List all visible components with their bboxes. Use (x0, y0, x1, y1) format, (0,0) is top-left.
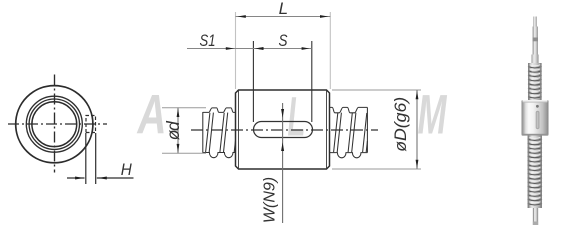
od dimension line (177, 108, 179, 154)
oD extension line bottom (332, 168, 421, 170)
H extension line left (85, 133, 87, 184)
svg-text:M: M (418, 83, 448, 146)
svg-text:L: L (279, 0, 288, 18)
nut outer circle (16, 86, 93, 163)
left thread bottom profile (203, 153, 236, 158)
L arrow right (320, 15, 329, 18)
H extension line right (95, 133, 97, 184)
screw bore circle (32, 102, 77, 147)
svg-text:W(N9): W(N9) (262, 177, 279, 223)
horizontal center line (8, 123, 107, 125)
photo nut body (522, 100, 549, 136)
keyway hidden rectangle (86, 116, 96, 133)
S extension line left (252, 41, 254, 122)
keyway slot stadium (254, 122, 313, 138)
oD arrow bottom (416, 160, 419, 169)
photo shaft top tip (533, 17, 537, 28)
photo bottom rod (533, 208, 538, 225)
photo shaft collar (531, 55, 538, 64)
right screw thread section (330, 107, 367, 157)
right thread bottom profile (330, 153, 367, 158)
S1 arrow pointing right at L extension (226, 47, 235, 50)
S extension line right (311, 41, 313, 122)
photo nut keyway slot (536, 111, 540, 129)
photo upper thread edge shading (528, 63, 530, 101)
od arrow bottom (177, 144, 180, 153)
L extension line left (235, 12, 237, 89)
nut left face inner line (238, 90, 240, 169)
photo lower threaded section (528, 136, 542, 209)
svg-text:S: S (279, 31, 289, 50)
od arrow top (177, 109, 180, 118)
S arrow left (256, 47, 264, 50)
W arrow up at slot bottom (281, 142, 284, 151)
svg-text:S1: S1 (200, 31, 216, 50)
svg-text:ød: ød (163, 120, 183, 140)
svg-text:H: H (121, 161, 132, 179)
right thread flank lines (334, 113, 368, 153)
S1 arrow pointing left at slot edge (255, 47, 264, 50)
main horizontal center line (191, 129, 378, 131)
S dimension line (253, 48, 311, 50)
S arrow right (302, 47, 310, 50)
left thread flank lines (206, 113, 236, 153)
W dimension center line (282, 103, 284, 223)
oD extension line top (332, 89, 421, 91)
photo bottom rod shade (533, 222, 538, 226)
left thread top profile (203, 108, 236, 113)
H arrow left (75, 177, 84, 180)
left screw thread section (203, 108, 236, 158)
nut right face inner line (326, 90, 328, 169)
ball track circle inner (29, 99, 79, 149)
photo nut bottom edge (522, 134, 548, 136)
screw right end line (366, 107, 368, 152)
L arrow left (237, 15, 246, 18)
photo shaft groove band (533, 38, 538, 42)
od extension line bottom (162, 152, 206, 154)
right thread top profile (330, 107, 367, 112)
photo bottom rod edges (533, 208, 534, 225)
S1 dimension line (187, 48, 262, 50)
photo shaft upper rod (533, 27, 538, 56)
svg-text:A: A (136, 83, 166, 146)
W arrow down at slot top (281, 109, 284, 118)
vertical center line (54, 75, 56, 173)
ball track circle outer (26, 96, 82, 152)
od extension line top (162, 107, 206, 109)
L dimension line (236, 16, 331, 18)
nut body outline (236, 90, 330, 169)
screw left end line (202, 112, 204, 153)
H dimension line (67, 177, 134, 179)
photo lower thread edge shading (528, 136, 530, 209)
photo upper threaded section (528, 63, 542, 101)
photo nut top bevel (522, 100, 547, 102)
H arrow right (98, 177, 107, 180)
oD dimension line (416, 90, 418, 169)
photo nut dot (536, 105, 539, 108)
L extension line right (329, 12, 331, 89)
svg-text:øD(g6): øD(g6) (391, 97, 410, 152)
oD arrow top (416, 91, 419, 100)
